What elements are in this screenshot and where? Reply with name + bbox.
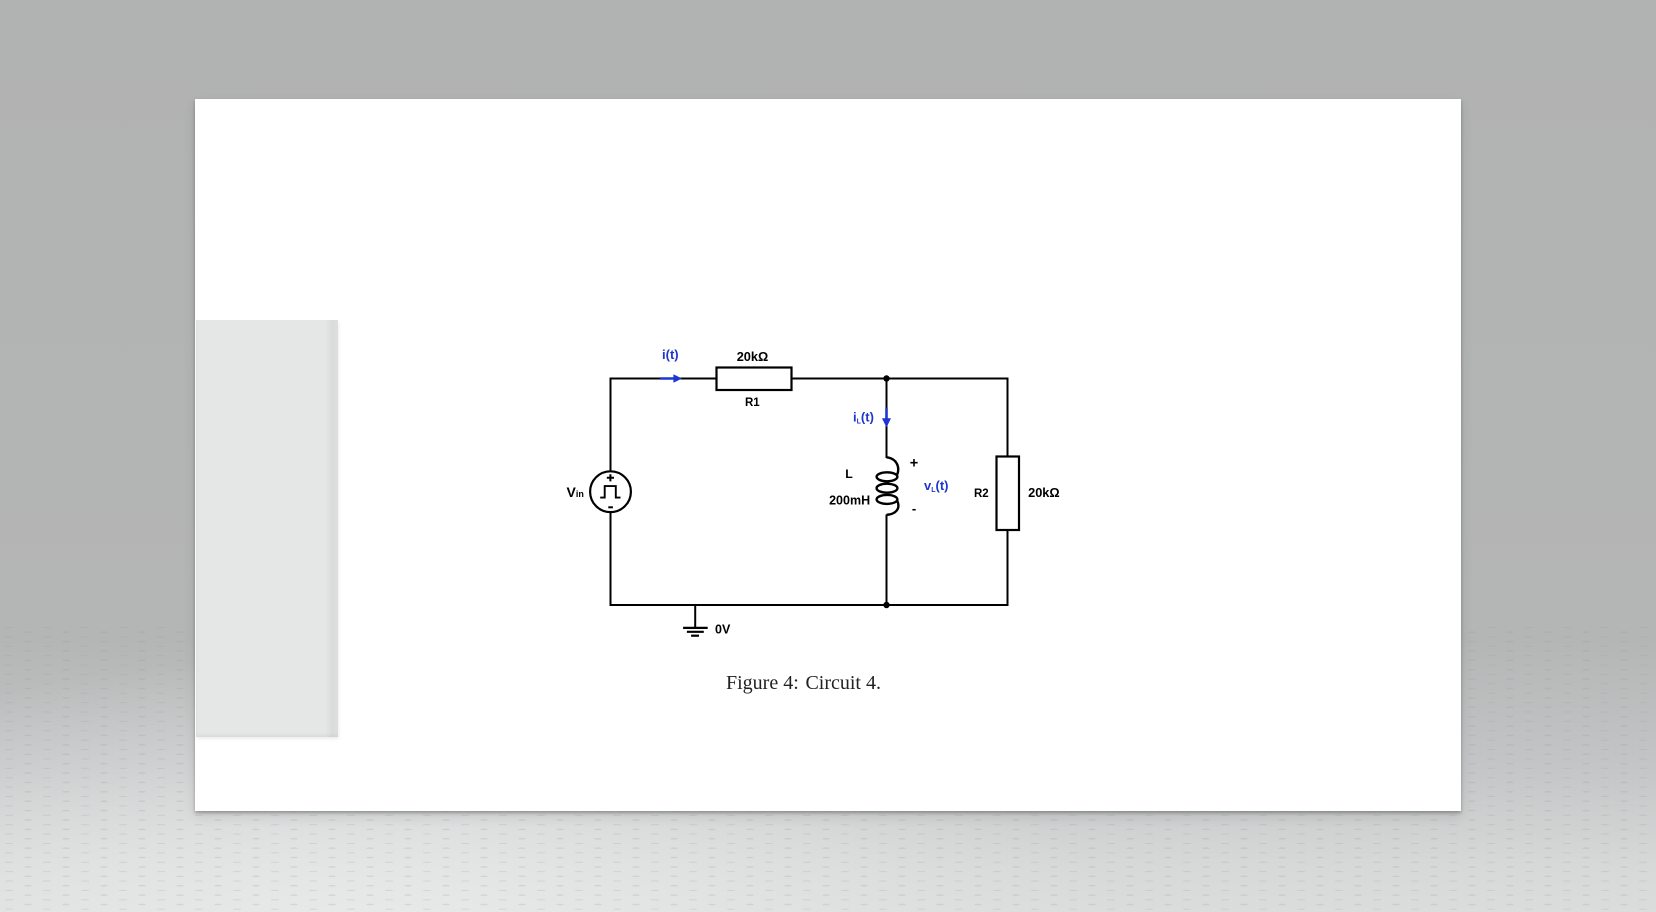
svg-text:R1: R1: [745, 397, 760, 409]
wire middle vertical lower: [886, 515, 888, 606]
node A (top junction): [883, 375, 889, 381]
wire right vertical upper: [1007, 378, 1009, 457]
svg-text:Vin: Vin: [567, 484, 584, 500]
arrow i(t): [660, 374, 682, 383]
wire bottom: [610, 604, 1009, 606]
wire top right segment: [792, 378, 1009, 380]
sidebar panel: [196, 320, 338, 737]
wire left vertical lower: [610, 512, 612, 606]
source plus sign: [607, 474, 614, 481]
svg-text:+: +: [910, 456, 918, 472]
caption: [726, 672, 926, 695]
wire middle vertical upper: [886, 379, 888, 459]
ground: [694, 605, 696, 628]
node B (bottom junction): [883, 602, 889, 608]
svg-text:20kΩ: 20kΩ: [737, 349, 769, 364]
svg-text:i(t): i(t): [662, 347, 679, 362]
svg-text:0V: 0V: [715, 623, 731, 637]
arrow iL(t): [882, 408, 891, 428]
svg-text:iL(t): iL(t): [853, 410, 874, 426]
inductor L coil: [877, 457, 899, 515]
wire left vertical (source branch): [610, 379, 612, 472]
resistor R2: [997, 457, 1020, 531]
svg-text:200mH: 200mH: [829, 493, 870, 507]
wire top left segment: [610, 378, 717, 380]
wire right vertical lower: [1007, 530, 1009, 606]
svg-text:R2: R2: [974, 488, 989, 500]
source minus sign: [608, 506, 613, 508]
page background: [195, 99, 1461, 811]
svg-text:20kΩ: 20kΩ: [1028, 485, 1060, 500]
resistor R1: [717, 368, 792, 391]
svg-text:-: -: [912, 501, 916, 516]
svg-text:L: L: [845, 467, 853, 481]
source pulse symbol: [600, 486, 620, 498]
circuit schematic: [540, 330, 1100, 660]
svg-text:vL(t): vL(t): [924, 478, 949, 494]
floor texture: [0, 625, 1656, 912]
source Vin circle: [590, 471, 631, 512]
